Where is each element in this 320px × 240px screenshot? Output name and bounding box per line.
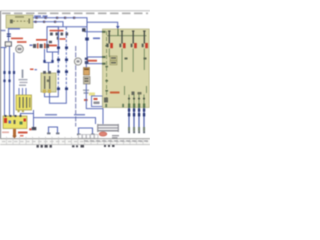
connector block CB (yellow) <box>16 95 32 112</box>
wire RB2 down to node <box>86 84 103 124</box>
junction connector JB (khaki block) <box>41 71 56 93</box>
harness wire W3 <box>138 108 140 131</box>
sensor ground wire (x=76) <box>75 46 77 127</box>
wires into connector block <box>19 88 26 95</box>
ECU box (large khaki) <box>103 29 150 108</box>
G1 feet <box>47 133 60 135</box>
junction dots above U2 <box>125 58 147 60</box>
ECU label plates <box>110 56 117 65</box>
page background <box>0 0 150 150</box>
wire bus 2 (lower) <box>33 22 63 27</box>
column label (red) <box>57 37 66 40</box>
shielded wire S1 (dashed column) <box>57 27 59 90</box>
ECU internal rail (green horizontal) <box>107 35 147 37</box>
splice on feeder <box>85 38 89 41</box>
dashed bus ticks <box>105 45 108 92</box>
harness wire W4 <box>143 108 145 131</box>
inline connector J1b <box>45 17 47 19</box>
feeder wire to ECU mid pins <box>87 22 103 63</box>
driver Q3 <box>131 31 137 73</box>
diode unit D1 (blue outline) <box>92 96 103 107</box>
connector table CT <box>97 124 119 132</box>
ECU entry wire (green) <box>117 29 119 36</box>
ECU output nets (green) <box>129 95 144 105</box>
wire L1 <box>4 48 6 118</box>
pump motor M1 <box>16 45 24 53</box>
wire end ticks <box>128 131 145 133</box>
net beads <box>128 98 145 100</box>
seal cap (red oval) <box>99 132 107 136</box>
bus label (blue) <box>45 114 57 116</box>
harness wire W1 <box>128 108 130 131</box>
relay contact marks <box>50 33 68 36</box>
motor marks <box>77 60 80 62</box>
fuse label (red) <box>11 38 23 40</box>
wire S1 return to connector <box>44 90 58 97</box>
driver Q2 <box>119 31 125 73</box>
fuse box FB (yellow) <box>3 115 27 129</box>
ECU dashed bus (green vertical) <box>106 31 108 103</box>
inline connector J2c <box>54 21 56 23</box>
G2 feet <box>77 134 95 136</box>
splice marks on S1/S2 <box>57 47 68 91</box>
shield tag (dark) <box>29 127 36 130</box>
wire feed into ECU pin1 <box>85 31 103 33</box>
wire top edge to relay <box>47 26 87 28</box>
border stub label <box>1 30 6 31</box>
shielded wire S2 (dashed column) <box>65 27 67 90</box>
component mark left of feeder <box>83 28 86 31</box>
label text red (near ECU feed) <box>88 60 98 62</box>
inline connector J2a <box>35 21 37 23</box>
wire bus 1 (upper) <box>33 18 118 29</box>
connector pair <box>7 33 11 36</box>
resistor block RB2 (tan) <box>84 77 91 85</box>
ECU left edge pins <box>102 31 106 65</box>
connector box C1 (top-left khaki) <box>6 15 33 28</box>
inline connector J1c <box>56 17 58 19</box>
border frame left <box>0 11 2 139</box>
wire from C1 down <box>8 28 10 41</box>
fuse strip row <box>30 43 50 48</box>
resistor block RB1 (tan) <box>84 61 90 75</box>
header rule <box>0 10 150 12</box>
ECU lower label (red) <box>110 92 120 94</box>
bus label2 (blue) <box>74 114 85 116</box>
wire L2 <box>9 47 11 118</box>
ECU lower component <box>104 98 108 103</box>
inline connector J1a <box>36 17 38 19</box>
ECU lower wires (green) <box>125 86 147 95</box>
inline connector J1e <box>73 17 75 19</box>
wire S2 return loop <box>50 90 67 103</box>
ground jumper G2 (staple) <box>79 128 93 135</box>
fuse label2 (red) <box>17 41 27 43</box>
label text (blue, right of box C1) <box>34 15 48 17</box>
wire L3 <box>13 53 15 117</box>
sensor cluster SC1 <box>19 70 28 86</box>
splices on left wires <box>3 71 15 82</box>
legend text right <box>112 135 119 139</box>
ECU lower marks <box>132 92 142 96</box>
relay coil mark <box>49 41 52 43</box>
circuit breaker CB1 <box>5 42 11 46</box>
ground jumper G1 (staple) <box>49 127 58 134</box>
driver Q4 <box>142 31 148 71</box>
wire border feed <box>1 47 7 49</box>
ECU bottom pins (green) <box>105 104 145 109</box>
footer page marks <box>37 145 115 148</box>
header title text row <box>2 12 148 14</box>
relay label text (red) <box>50 30 64 32</box>
splice near feeder <box>85 58 88 60</box>
ground label (red) <box>18 132 28 134</box>
ground bus wire (long horizontal) <box>34 110 96 127</box>
harness wire W2 <box>133 108 135 131</box>
footer strip cells <box>0 137 150 145</box>
faint label left <box>2 132 9 134</box>
red speck <box>20 135 24 137</box>
tiny label left of JB <box>30 69 37 71</box>
fuse strip label (red) <box>36 39 47 41</box>
ground strap (brown) <box>12 129 17 138</box>
label above D1 (yellow hl) <box>89 93 95 96</box>
wire JB to ground bus <box>21 93 45 116</box>
inline connector J2b <box>43 21 45 23</box>
arrow into ECU <box>116 26 120 29</box>
inline connector J1d <box>64 17 66 19</box>
driver Q1 <box>107 31 113 58</box>
splices on drop wires <box>43 60 53 63</box>
motor M2 (circle on x=76 wire) <box>74 58 81 65</box>
inline connector J3 <box>82 28 86 31</box>
relay value text (red) <box>49 45 58 47</box>
label text blue small <box>93 38 100 40</box>
left cluster label (blue) <box>8 28 20 30</box>
footer rule <box>0 138 150 140</box>
relay R1 box <box>47 27 59 52</box>
legend boxes row <box>79 135 98 139</box>
wire relay to junction bar <box>44 49 53 73</box>
RB2 lower marks <box>83 90 89 102</box>
